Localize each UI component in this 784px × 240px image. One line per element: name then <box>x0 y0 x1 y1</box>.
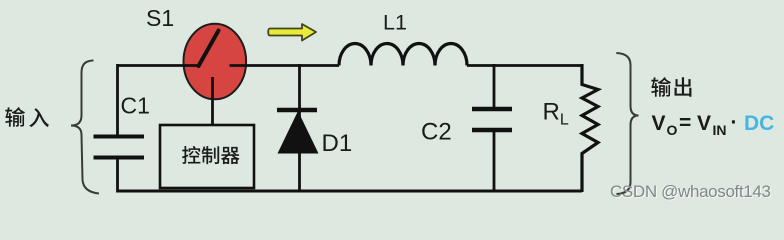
wire top left <box>117 64 199 67</box>
svg-text:L1: L1 <box>383 11 407 35</box>
wire bottom <box>117 190 583 193</box>
capacitor C2 plate bottom <box>472 128 512 133</box>
svg-text:C2: C2 <box>421 119 452 146</box>
wire diode branch <box>298 64 301 191</box>
inductor L1 <box>339 44 467 66</box>
wire left rail top <box>116 64 119 135</box>
label 输出 (output) char 1 <box>651 77 671 97</box>
arrow (current flow) <box>268 24 316 41</box>
wire C2 branch top <box>493 64 496 107</box>
svg-text:C1: C1 <box>121 93 150 119</box>
label 输入 (input) char 2 <box>29 108 49 127</box>
resistor RL zigzag <box>582 64 598 192</box>
svg-text:IN: IN <box>713 122 727 138</box>
svg-text:·: · <box>731 111 738 134</box>
wire top to right rail <box>467 64 583 67</box>
switch S1 body <box>184 24 247 100</box>
svg-text:D1: D1 <box>322 130 353 157</box>
output brace <box>616 53 638 194</box>
controller box <box>160 125 254 188</box>
wire top right of switch <box>230 64 340 67</box>
diode D1 triangle <box>278 111 319 154</box>
label 控制器 (controller) char 3 <box>221 147 240 164</box>
diode D1 cathode bar <box>277 108 317 113</box>
switch S1 lever <box>199 31 219 67</box>
wire C2 branch bottom <box>493 132 496 191</box>
svg-text:V: V <box>697 112 711 135</box>
svg-text:O: O <box>667 122 678 138</box>
label 控制器 (controller) char 1 <box>182 146 200 164</box>
input brace <box>71 61 99 194</box>
svg-text:CSDN @whaosoft143: CSDN @whaosoft143 <box>610 182 771 201</box>
label 输入 (input) char 1 <box>5 107 25 127</box>
wire left rail bottom <box>116 160 119 193</box>
capacitor C1 plate bottom <box>94 156 145 160</box>
capacitor C2 plate top <box>472 107 512 112</box>
capacitor C1 plate top <box>94 135 145 139</box>
wire S1 to controller <box>211 77 214 125</box>
svg-text:=: = <box>679 112 691 135</box>
label 控制器 (controller) char 2 <box>202 146 220 164</box>
label 输出 (output) char 2 <box>675 77 692 96</box>
svg-text:V: V <box>652 112 666 135</box>
svg-text:DC: DC <box>744 112 774 135</box>
svg-text:S1: S1 <box>146 5 174 31</box>
